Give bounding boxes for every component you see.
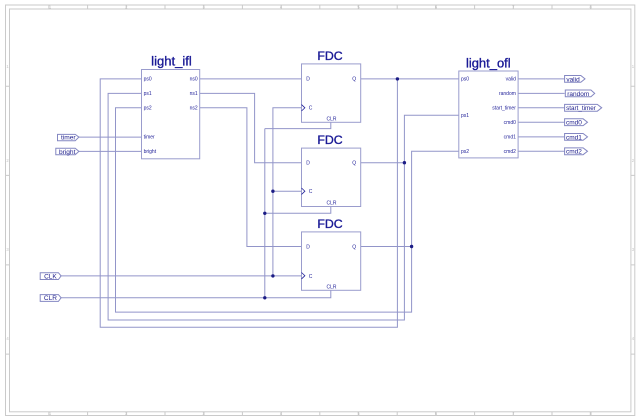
input port tag bright <box>56 148 79 156</box>
svg-text:ps2: ps2 <box>144 106 152 112</box>
svg-text:random: random <box>499 91 516 97</box>
svg-text:C: C <box>309 274 313 280</box>
wire bright <box>79 150 142 152</box>
svg-text:Q: Q <box>352 244 356 250</box>
svg-text:cmd1: cmd1 <box>504 135 516 141</box>
svg-text:ns2: ns2 <box>190 106 198 112</box>
svg-text:D: D <box>306 161 310 167</box>
input port tag timer <box>58 134 79 141</box>
svg-text:valid: valid <box>566 76 580 83</box>
svg-text:D: D <box>306 77 310 83</box>
wire CLK net <box>60 108 301 276</box>
svg-text:ps1: ps1 <box>144 91 152 97</box>
wire Q2 to vertical <box>361 162 405 164</box>
svg-text:cmd1: cmd1 <box>566 134 582 141</box>
wire ps0 feedback loop <box>100 79 397 327</box>
output port tag start_timer <box>565 104 602 112</box>
svg-text:timer: timer <box>61 135 76 142</box>
svg-text:ns0: ns0 <box>190 77 198 83</box>
input port tag CLK <box>40 273 61 281</box>
svg-text:ps1: ps1 <box>461 113 469 119</box>
output port tag random <box>565 90 594 98</box>
svg-text:ps2: ps2 <box>461 149 469 155</box>
wire random <box>518 92 565 94</box>
wire valid <box>518 78 565 80</box>
svg-text:C: C <box>309 189 313 195</box>
svg-text:valid: valid <box>506 77 517 83</box>
svg-text:ps0: ps0 <box>461 77 469 83</box>
wire ps2 feedback and light_ofl ps2 <box>116 108 459 312</box>
wire cmd1 <box>518 136 565 138</box>
svg-text:CLR: CLR <box>44 295 57 302</box>
svg-text:bright: bright <box>59 149 76 156</box>
svg-text:random: random <box>567 91 589 98</box>
junction CLK at FDC3 C <box>271 274 274 277</box>
wire ns0 : light_ifl ns0 to FDC1 D <box>200 78 302 80</box>
wire ns2 : light_ifl ns2 to FDC3 D <box>200 108 302 247</box>
component light_ofl <box>459 55 518 158</box>
flip-flop U FDC1 <box>302 49 361 123</box>
svg-text:light_ofl: light_ofl <box>466 55 511 70</box>
svg-text:start_timer: start_timer <box>566 105 596 112</box>
svg-text:FDC: FDC <box>317 133 342 147</box>
junction Q3 node <box>410 245 413 248</box>
wire start_timer <box>518 107 565 109</box>
svg-text:ns1: ns1 <box>190 91 198 97</box>
svg-text:Q: Q <box>352 161 356 167</box>
svg-text:start_timer: start_timer <box>492 106 516 112</box>
svg-text:CLR: CLR <box>326 201 336 207</box>
svg-text:bright: bright <box>144 149 157 155</box>
svg-text:Q: Q <box>352 77 356 83</box>
wire Q3 to vertical <box>361 246 412 248</box>
svg-text:CLR: CLR <box>326 285 336 291</box>
svg-text:ps0: ps0 <box>144 77 152 83</box>
wire timer <box>79 136 142 138</box>
junction Q1 node <box>396 77 399 80</box>
wire ns1 : light_ifl ns1 to FDC2 D <box>200 93 302 162</box>
svg-text:timer: timer <box>144 135 155 141</box>
wire Q1 to light_ofl ps0 <box>361 78 459 80</box>
wire cmd2 <box>518 150 565 152</box>
junction CLR main <box>263 296 266 299</box>
svg-text:CLR: CLR <box>326 117 336 123</box>
component light_ifl <box>142 54 200 159</box>
output port tag valid <box>565 76 585 84</box>
output port tag cmd0 <box>565 119 588 127</box>
svg-text:light_ifl: light_ifl <box>151 54 192 69</box>
wire cmd0 <box>518 121 565 123</box>
svg-text:FDC: FDC <box>317 49 342 63</box>
clock wedge FDC2 C pin <box>302 188 305 194</box>
svg-text:FDC: FDC <box>317 217 342 231</box>
flip-flop U FDC2 <box>302 133 361 207</box>
wire CLR net <box>60 122 330 297</box>
input port tag CLR <box>40 295 61 303</box>
svg-text:cmd2: cmd2 <box>504 149 516 155</box>
svg-text:D: D <box>306 244 310 250</box>
flip-flop U FDC3 <box>302 217 361 291</box>
clock wedge FDC1 C pin <box>302 105 305 111</box>
output port tag cmd1 <box>565 134 588 142</box>
wire ps1 feedback and light_ofl ps1 <box>108 93 459 320</box>
svg-text:CLK: CLK <box>44 273 57 280</box>
svg-text:cmd0: cmd0 <box>566 120 582 127</box>
svg-text:cmd2: cmd2 <box>566 149 582 156</box>
junction Q2 node <box>403 161 406 164</box>
svg-text:C: C <box>309 106 313 112</box>
junction CLR at FDC2 branch <box>263 212 266 215</box>
svg-text:cmd0: cmd0 <box>504 120 516 126</box>
clock wedge FDC3 C pin <box>302 273 305 279</box>
junction CLK at FDC2 C <box>271 190 274 193</box>
output port tag cmd2 <box>565 148 588 156</box>
